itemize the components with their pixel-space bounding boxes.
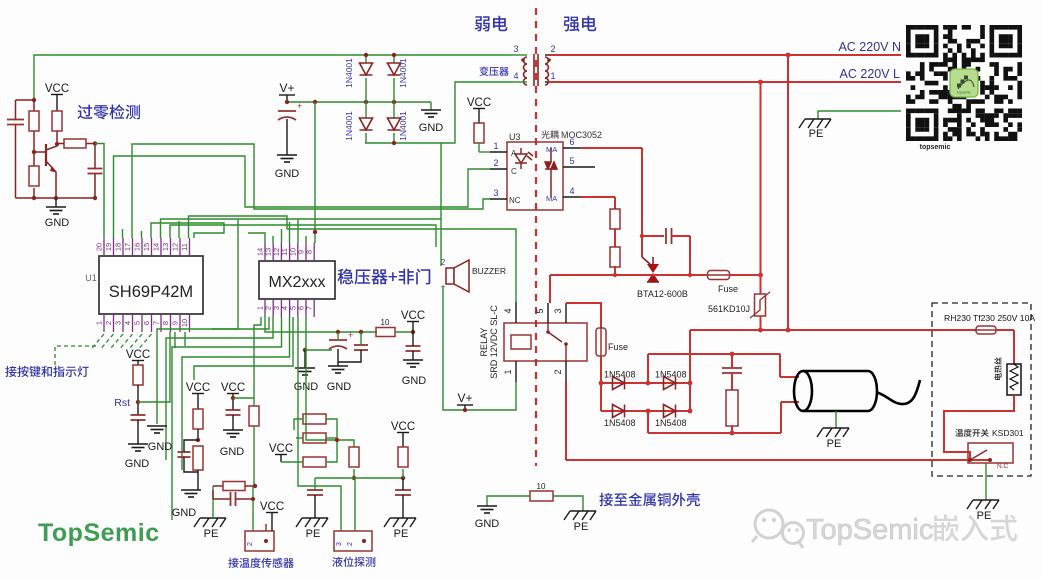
svg-text:3: 3 (114, 321, 123, 325)
svg-text:10: 10 (537, 482, 546, 491)
svg-text:4: 4 (503, 308, 513, 313)
svg-text:1N5408: 1N5408 (655, 418, 687, 428)
svg-text:5: 5 (133, 321, 142, 325)
svg-text:1N4001: 1N4001 (398, 111, 408, 141)
svg-text:A: A (511, 149, 517, 158)
svg-text:12: 12 (171, 243, 180, 251)
svg-text:4: 4 (569, 186, 574, 196)
svg-text:15: 15 (142, 243, 151, 251)
svg-text:GND: GND (45, 217, 70, 229)
svg-text:1: 1 (503, 369, 513, 374)
svg-text:PE: PE (574, 521, 589, 533)
svg-text:1N4001: 1N4001 (344, 111, 354, 141)
svg-text:MX2xxx: MX2xxx (269, 274, 326, 291)
svg-text:5: 5 (569, 156, 574, 166)
svg-text:9: 9 (171, 321, 180, 325)
svg-text:U3: U3 (509, 132, 521, 142)
svg-text:17: 17 (123, 243, 132, 251)
svg-text:5: 5 (535, 308, 545, 313)
svg-text:MA: MA (546, 194, 557, 203)
svg-text:1: 1 (550, 71, 555, 81)
svg-text:3: 3 (336, 542, 343, 546)
svg-text:PE: PE (394, 528, 409, 540)
svg-text:18: 18 (114, 243, 123, 251)
svg-text:V+: V+ (457, 391, 472, 405)
svg-text:VCC: VCC (401, 310, 425, 322)
svg-text:PE: PE (204, 528, 219, 540)
svg-text:13: 13 (161, 243, 170, 251)
svg-text:GND: GND (327, 381, 352, 393)
svg-text:RELAY: RELAY (479, 328, 489, 357)
svg-text:8: 8 (161, 321, 170, 325)
svg-text:+: + (297, 101, 302, 111)
svg-text:U1: U1 (85, 273, 97, 283)
svg-text:1: 1 (95, 321, 104, 325)
svg-text:16: 16 (133, 243, 142, 251)
svg-text:GND: GND (275, 168, 300, 180)
svg-text:GND: GND (125, 458, 150, 470)
svg-text:VCC: VCC (126, 349, 150, 361)
svg-text:GND: GND (402, 375, 427, 387)
svg-text:BUZZER: BUZZER (472, 266, 506, 276)
svg-text:1N4001: 1N4001 (344, 58, 354, 88)
svg-text:PE: PE (827, 438, 842, 450)
svg-text:3: 3 (553, 308, 563, 313)
svg-text:+: + (348, 330, 353, 340)
svg-text:GND: GND (475, 518, 500, 530)
svg-text:561KD10J: 561KD10J (708, 304, 750, 314)
svg-text:8: 8 (305, 250, 314, 254)
svg-text:GND: GND (172, 507, 197, 519)
svg-text:2: 2 (493, 158, 498, 168)
svg-text:2: 2 (104, 321, 113, 325)
svg-text:BTA12-600B: BTA12-600B (637, 289, 688, 299)
svg-text:SH69P42M: SH69P42M (109, 283, 193, 301)
svg-text:VCC: VCC (391, 421, 415, 433)
svg-text:VCC: VCC (467, 97, 491, 109)
svg-text:AC 220V N: AC 220V N (838, 40, 901, 54)
svg-text:4: 4 (513, 71, 518, 81)
svg-text:VCC: VCC (186, 382, 210, 394)
svg-text:VCC: VCC (260, 501, 284, 513)
svg-text:topsemic: topsemic (957, 91, 971, 95)
svg-text:MOC3052: MOC3052 (561, 130, 602, 140)
svg-text:3: 3 (513, 44, 518, 54)
svg-text:2: 2 (553, 369, 563, 374)
svg-text:4: 4 (123, 321, 132, 325)
svg-text:3: 3 (493, 188, 498, 198)
svg-text:GND: GND (419, 122, 444, 134)
svg-text:PE: PE (977, 510, 992, 522)
svg-text:Fuse: Fuse (718, 284, 738, 294)
svg-text:V+: V+ (279, 81, 294, 95)
svg-text:10: 10 (381, 318, 390, 327)
svg-text:VCC: VCC (45, 83, 69, 95)
svg-text:SRD 12VDC SL-C: SRD 12VDC SL-C (489, 305, 499, 379)
svg-text:NC: NC (509, 196, 521, 205)
svg-text:1N4001: 1N4001 (398, 58, 408, 88)
svg-text:VCC: VCC (221, 382, 245, 394)
svg-text:TopSemic: TopSemic (806, 514, 933, 546)
svg-text:MA: MA (546, 145, 557, 154)
svg-text:TopSemic: TopSemic (38, 519, 160, 547)
svg-text:1N5408: 1N5408 (604, 418, 636, 428)
svg-text:20: 20 (95, 243, 104, 251)
svg-text:2: 2 (347, 542, 354, 546)
svg-text:10: 10 (180, 319, 189, 327)
svg-text:PE: PE (306, 528, 321, 540)
svg-text:6: 6 (142, 321, 151, 325)
svg-text:topsemic: topsemic (920, 144, 951, 151)
svg-text:N.C: N.C (997, 463, 1009, 470)
svg-text:14: 14 (152, 243, 161, 251)
svg-text:1: 1 (493, 141, 498, 151)
svg-text:VCC: VCC (269, 443, 293, 455)
svg-text:7: 7 (152, 321, 161, 325)
svg-text:GND: GND (148, 441, 173, 453)
svg-text:RH230 Tf230 250V 10A: RH230 Tf230 250V 10A (944, 313, 1035, 323)
svg-text:1N5408: 1N5408 (655, 370, 687, 380)
svg-text:Rst: Rst (114, 397, 130, 409)
svg-text:C: C (511, 167, 517, 176)
svg-text:2: 2 (550, 44, 555, 54)
svg-text:2: 2 (247, 542, 254, 546)
svg-text:7: 7 (305, 306, 314, 310)
svg-text:Fuse: Fuse (608, 342, 628, 352)
svg-text:19: 19 (104, 243, 113, 251)
svg-text:AC 220V L: AC 220V L (840, 67, 901, 81)
svg-text:GND: GND (220, 446, 245, 458)
svg-text:KSD301: KSD301 (992, 428, 1024, 438)
svg-text:1N5408: 1N5408 (604, 370, 636, 380)
svg-text:11: 11 (180, 243, 189, 251)
svg-text:PE: PE (809, 128, 824, 140)
